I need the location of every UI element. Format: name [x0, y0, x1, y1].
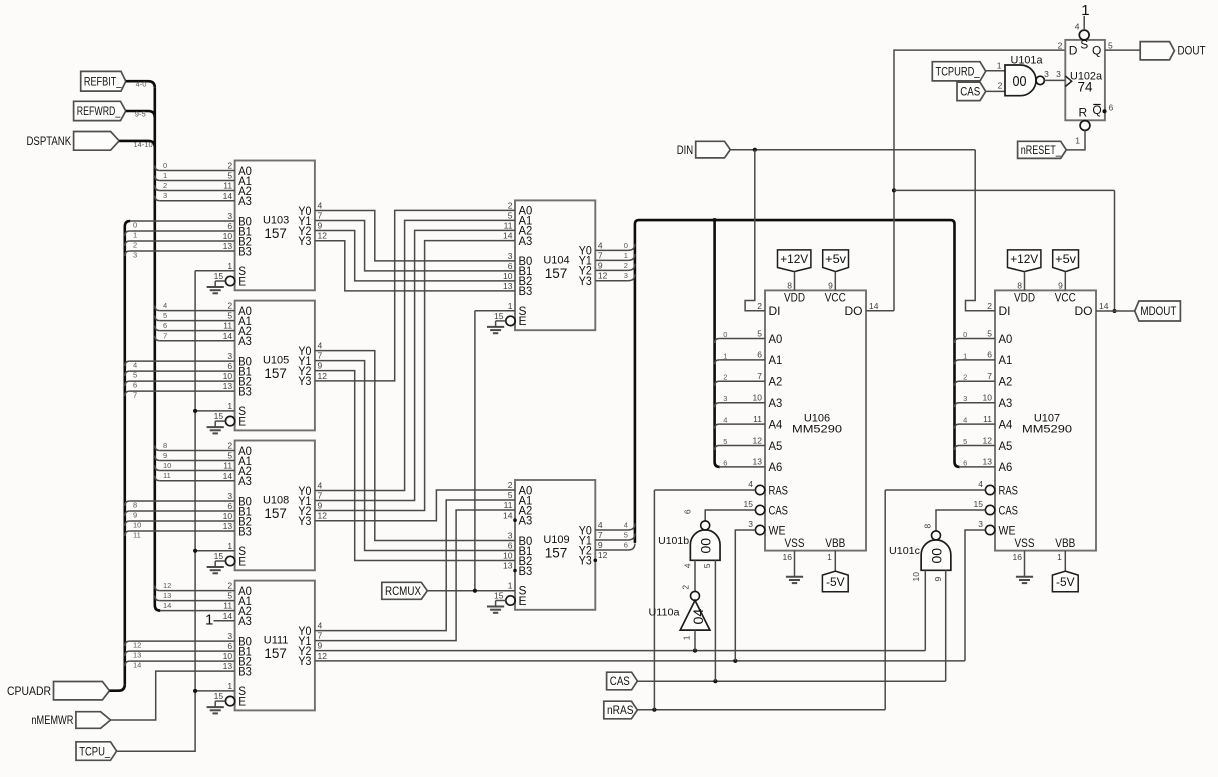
svg-text:11: 11 — [504, 500, 513, 510]
svg-text:4: 4 — [598, 240, 603, 250]
svg-text:9: 9 — [933, 577, 943, 582]
svg-text:1: 1 — [1057, 552, 1062, 562]
svg-text:9: 9 — [318, 641, 323, 651]
svg-text:157: 157 — [545, 266, 568, 281]
svg-text:B3: B3 — [238, 524, 252, 538]
svg-text:Y3: Y3 — [298, 654, 311, 668]
svg-text:11: 11 — [504, 221, 513, 231]
svg-text:REFBIT_: REFBIT_ — [84, 74, 122, 88]
svg-text:CAS: CAS — [960, 85, 980, 99]
svg-text:157: 157 — [264, 506, 287, 521]
svg-text:13: 13 — [223, 241, 233, 251]
svg-text:157: 157 — [264, 226, 287, 241]
svg-text:1: 1 — [227, 261, 232, 271]
svg-text:6: 6 — [227, 641, 232, 651]
svg-text:8: 8 — [163, 441, 167, 450]
svg-text:Q: Q — [1092, 43, 1101, 57]
svg-text:DI: DI — [769, 304, 781, 318]
svg-text:11: 11 — [223, 321, 232, 331]
svg-text:1: 1 — [508, 580, 513, 590]
svg-text:1: 1 — [205, 612, 213, 629]
svg-text:2: 2 — [227, 581, 232, 591]
svg-text:5: 5 — [227, 451, 232, 461]
svg-text:14: 14 — [1099, 301, 1109, 311]
svg-text:5: 5 — [624, 531, 628, 540]
svg-text:10: 10 — [911, 572, 921, 582]
svg-text:14: 14 — [223, 191, 233, 201]
svg-text:3: 3 — [508, 531, 513, 541]
svg-text:CPUADR: CPUADR — [7, 684, 51, 698]
svg-text:12: 12 — [983, 435, 993, 445]
svg-text:WE: WE — [769, 523, 786, 537]
svg-text:nMEMWR: nMEMWR — [31, 713, 73, 727]
svg-text:+12V: +12V — [1010, 252, 1038, 266]
svg-text:+5v: +5v — [825, 252, 846, 266]
svg-text:A3: A3 — [238, 334, 252, 348]
svg-text:6: 6 — [133, 381, 137, 390]
svg-text:U110a: U110a — [649, 607, 680, 618]
svg-text:2: 2 — [1058, 41, 1063, 51]
svg-text:9-5: 9-5 — [135, 110, 146, 119]
svg-text:9: 9 — [598, 540, 603, 550]
svg-text:4: 4 — [598, 520, 603, 530]
svg-text:11: 11 — [223, 181, 232, 191]
svg-text:B3: B3 — [238, 664, 252, 678]
svg-text:7: 7 — [133, 391, 137, 400]
svg-text:15: 15 — [214, 271, 224, 281]
svg-text:15: 15 — [214, 691, 224, 701]
svg-text:A3: A3 — [238, 474, 252, 488]
svg-text:4: 4 — [748, 479, 753, 489]
svg-text:A3: A3 — [519, 514, 533, 528]
svg-text:4: 4 — [318, 200, 323, 210]
svg-text:9: 9 — [318, 500, 323, 510]
svg-text:WE: WE — [999, 523, 1016, 537]
svg-text:8: 8 — [1017, 281, 1022, 291]
svg-text:VDD: VDD — [784, 291, 805, 305]
svg-text:6: 6 — [227, 501, 232, 511]
svg-text:6: 6 — [757, 350, 762, 360]
svg-text:nRESET_: nRESET_ — [1021, 143, 1061, 157]
svg-text:14: 14 — [869, 301, 879, 311]
svg-text:B3: B3 — [519, 564, 533, 578]
svg-text:B3: B3 — [238, 384, 252, 398]
svg-text:10: 10 — [133, 521, 141, 530]
svg-text:00: 00 — [928, 548, 944, 564]
svg-text:14: 14 — [163, 601, 171, 610]
svg-text:2: 2 — [998, 80, 1003, 90]
svg-text:10: 10 — [223, 511, 233, 521]
svg-text:A5: A5 — [999, 439, 1013, 453]
svg-text:A0: A0 — [999, 332, 1013, 346]
svg-text:VBB: VBB — [825, 536, 845, 550]
svg-text:MM5290: MM5290 — [1022, 424, 1072, 436]
svg-text:nRAS: nRAS — [607, 703, 634, 717]
svg-text:5: 5 — [133, 371, 137, 380]
svg-text:U105: U105 — [263, 355, 289, 367]
svg-text:6: 6 — [508, 541, 513, 551]
svg-text:10: 10 — [983, 393, 993, 403]
svg-text:9: 9 — [318, 361, 323, 371]
svg-text:7: 7 — [987, 371, 992, 381]
svg-text:7: 7 — [318, 490, 323, 500]
svg-text:7: 7 — [318, 631, 323, 641]
svg-text:E: E — [238, 414, 246, 428]
svg-text:TCPURD_: TCPURD_ — [936, 65, 980, 79]
svg-text:9: 9 — [163, 451, 167, 460]
svg-text:DO: DO — [845, 304, 863, 318]
svg-text:9: 9 — [133, 511, 137, 520]
svg-text:10: 10 — [163, 461, 171, 470]
svg-text:A5: A5 — [769, 439, 783, 453]
svg-text:0: 0 — [963, 330, 967, 339]
svg-text:3: 3 — [723, 394, 727, 403]
svg-text:12: 12 — [318, 231, 328, 241]
svg-text:U109: U109 — [543, 534, 569, 546]
svg-text:3: 3 — [227, 491, 232, 501]
svg-text:1: 1 — [133, 231, 137, 240]
svg-text:1: 1 — [681, 635, 691, 640]
svg-text:A2: A2 — [999, 375, 1013, 389]
svg-text:U104: U104 — [543, 254, 569, 266]
svg-text:3: 3 — [1056, 69, 1061, 79]
svg-text:11: 11 — [133, 531, 141, 540]
svg-text:1: 1 — [624, 251, 628, 260]
svg-text:E: E — [238, 554, 246, 568]
svg-text:9: 9 — [828, 281, 833, 291]
svg-text:U106: U106 — [804, 412, 830, 424]
svg-text:14: 14 — [223, 611, 233, 621]
svg-text:B3: B3 — [519, 284, 533, 298]
svg-text:14: 14 — [503, 231, 513, 241]
svg-text:14: 14 — [223, 331, 233, 341]
svg-text:00: 00 — [1013, 73, 1027, 90]
svg-text:A6: A6 — [999, 460, 1013, 474]
svg-text:13: 13 — [223, 521, 233, 531]
svg-text:14-10: 14-10 — [134, 140, 153, 149]
svg-text:6: 6 — [683, 509, 693, 514]
svg-text:1: 1 — [1081, 2, 1089, 19]
svg-text:-5V: -5V — [826, 575, 845, 589]
svg-text:13: 13 — [983, 457, 993, 467]
svg-text:4: 4 — [163, 301, 167, 310]
svg-text:2: 2 — [227, 301, 232, 311]
svg-text:A3: A3 — [519, 234, 533, 248]
svg-text:DIN: DIN — [677, 143, 694, 157]
svg-text:13: 13 — [223, 661, 233, 671]
svg-text:7: 7 — [598, 250, 603, 260]
svg-text:A3: A3 — [238, 194, 252, 208]
svg-text:E: E — [519, 594, 527, 608]
svg-text:4: 4 — [318, 341, 323, 351]
svg-text:U111: U111 — [264, 635, 289, 647]
svg-text:11: 11 — [223, 601, 232, 611]
svg-text:3: 3 — [963, 394, 967, 403]
svg-text:10: 10 — [503, 551, 513, 561]
svg-text:3: 3 — [133, 251, 137, 260]
svg-text:REFWRD_: REFWRD_ — [77, 104, 121, 118]
svg-text:12: 12 — [318, 371, 328, 381]
svg-text:6: 6 — [163, 321, 167, 330]
svg-text:A4: A4 — [999, 417, 1013, 431]
svg-text:6: 6 — [987, 350, 992, 360]
svg-text:2: 2 — [163, 181, 167, 190]
svg-text:DOUT: DOUT — [1178, 44, 1207, 58]
svg-text:5: 5 — [508, 490, 513, 500]
svg-text:A1: A1 — [769, 353, 783, 367]
svg-text:3: 3 — [978, 519, 983, 529]
svg-text:13: 13 — [133, 651, 141, 660]
svg-text:14: 14 — [133, 661, 141, 670]
svg-text:13: 13 — [503, 281, 513, 291]
svg-text:Y3: Y3 — [579, 554, 592, 568]
svg-text:11: 11 — [223, 461, 232, 471]
svg-text:2: 2 — [508, 201, 513, 211]
svg-text:1: 1 — [827, 552, 832, 562]
svg-text:Y3: Y3 — [298, 514, 311, 528]
svg-text:6: 6 — [624, 541, 628, 550]
svg-text:2: 2 — [508, 480, 513, 490]
svg-text:4: 4 — [133, 361, 137, 370]
svg-text:10: 10 — [223, 371, 233, 381]
svg-text:2: 2 — [987, 301, 992, 311]
svg-text:1: 1 — [227, 401, 232, 411]
svg-text:A6: A6 — [769, 460, 783, 474]
svg-text:Q: Q — [1092, 103, 1101, 117]
svg-text:4: 4 — [318, 480, 323, 490]
svg-text:14: 14 — [503, 510, 513, 520]
svg-text:3: 3 — [624, 271, 628, 280]
svg-text:MM5290: MM5290 — [792, 424, 842, 436]
svg-text:0: 0 — [723, 330, 727, 339]
svg-text:4: 4 — [318, 621, 323, 631]
svg-text:0: 0 — [624, 241, 628, 250]
svg-text:6: 6 — [227, 361, 232, 371]
svg-text:-5V: -5V — [1056, 575, 1075, 589]
svg-text:12: 12 — [163, 581, 171, 590]
svg-text:15: 15 — [494, 591, 504, 601]
svg-text:11: 11 — [753, 414, 762, 424]
svg-text:12: 12 — [753, 435, 763, 445]
svg-text:3: 3 — [227, 631, 232, 641]
svg-text:6: 6 — [508, 261, 513, 271]
svg-text:RCMUX: RCMUX — [385, 584, 421, 598]
svg-text:6: 6 — [723, 458, 727, 467]
svg-text:MDOUT: MDOUT — [1140, 304, 1177, 318]
svg-text:2: 2 — [963, 373, 967, 382]
svg-text:9: 9 — [318, 220, 323, 230]
svg-text:2: 2 — [133, 241, 137, 250]
svg-text:4-0: 4-0 — [136, 79, 147, 88]
svg-text:16: 16 — [783, 552, 793, 562]
svg-text:3: 3 — [227, 351, 232, 361]
svg-text:5: 5 — [163, 311, 167, 320]
svg-text:5: 5 — [723, 437, 727, 446]
svg-text:157: 157 — [264, 366, 287, 381]
svg-text:2: 2 — [624, 261, 628, 270]
svg-text:9: 9 — [598, 260, 603, 270]
svg-text:VBB: VBB — [1055, 536, 1075, 550]
svg-text:13: 13 — [753, 457, 763, 467]
svg-text:1: 1 — [163, 171, 167, 180]
svg-text:D: D — [1069, 43, 1078, 57]
svg-text:A1: A1 — [999, 353, 1013, 367]
svg-text:B3: B3 — [238, 244, 252, 258]
svg-text:7: 7 — [598, 530, 603, 540]
svg-text:5: 5 — [508, 211, 513, 221]
svg-text:157: 157 — [264, 646, 287, 661]
svg-text:15: 15 — [744, 499, 754, 509]
svg-text:A3: A3 — [769, 396, 783, 410]
svg-text:12: 12 — [598, 271, 608, 281]
svg-text:5: 5 — [227, 311, 232, 321]
svg-text:7: 7 — [318, 351, 323, 361]
svg-text:4: 4 — [1075, 22, 1080, 32]
svg-text:8: 8 — [787, 281, 792, 291]
svg-text:11: 11 — [163, 471, 171, 480]
svg-text:4: 4 — [683, 563, 693, 568]
svg-text:8: 8 — [133, 501, 137, 510]
svg-text:R: R — [1079, 105, 1088, 119]
svg-text:U101c: U101c — [889, 546, 920, 557]
svg-text:4: 4 — [963, 416, 967, 425]
svg-text:Y3: Y3 — [579, 274, 592, 288]
svg-text:E: E — [519, 314, 527, 328]
svg-text:2: 2 — [680, 585, 690, 590]
svg-text:4: 4 — [723, 416, 727, 425]
svg-text:2: 2 — [723, 373, 727, 382]
svg-text:7: 7 — [318, 210, 323, 220]
svg-text:VSS: VSS — [1015, 536, 1035, 550]
svg-text:12: 12 — [598, 550, 608, 560]
svg-text:6: 6 — [1109, 102, 1114, 112]
svg-text:16: 16 — [1013, 552, 1023, 562]
svg-text:3: 3 — [1044, 69, 1049, 79]
svg-text:0: 0 — [163, 161, 167, 170]
svg-text:+5v: +5v — [1055, 252, 1076, 266]
svg-text:6: 6 — [963, 458, 967, 467]
svg-text:3: 3 — [227, 211, 232, 221]
svg-text:2: 2 — [757, 301, 762, 311]
svg-text:10: 10 — [503, 271, 513, 281]
svg-text:10: 10 — [223, 651, 233, 661]
svg-text:1: 1 — [963, 351, 967, 360]
svg-text:00: 00 — [698, 538, 714, 554]
svg-text:3: 3 — [508, 251, 513, 261]
svg-text:A3: A3 — [999, 396, 1013, 410]
svg-text:DSPTANK: DSPTANK — [27, 134, 72, 148]
svg-text:11: 11 — [983, 414, 992, 424]
svg-text:Y3: Y3 — [298, 374, 311, 388]
svg-text:7: 7 — [757, 371, 762, 381]
svg-text:VSS: VSS — [785, 536, 805, 550]
svg-text:A3: A3 — [238, 614, 252, 628]
svg-text:U101b: U101b — [658, 536, 689, 547]
svg-text:5: 5 — [227, 171, 232, 181]
svg-text:E: E — [238, 274, 246, 288]
svg-text:+12V: +12V — [780, 252, 808, 266]
svg-text:5: 5 — [987, 328, 992, 338]
svg-text:15: 15 — [214, 411, 224, 421]
svg-text:15: 15 — [494, 311, 504, 321]
svg-text:3: 3 — [163, 191, 167, 200]
svg-text:12: 12 — [318, 651, 328, 661]
svg-text:5: 5 — [702, 563, 712, 568]
svg-text:7: 7 — [163, 331, 167, 340]
svg-text:CAS: CAS — [999, 503, 1019, 517]
svg-text:15: 15 — [214, 551, 224, 561]
svg-text:6: 6 — [227, 221, 232, 231]
svg-text:5: 5 — [757, 328, 762, 338]
svg-text:VDD: VDD — [1014, 291, 1035, 305]
svg-text:A0: A0 — [769, 332, 783, 346]
svg-text:13: 13 — [223, 381, 233, 391]
svg-text:13: 13 — [503, 561, 513, 571]
svg-text:1: 1 — [227, 681, 232, 691]
svg-text:8: 8 — [922, 524, 932, 529]
svg-text:TCPU_: TCPU_ — [79, 744, 110, 758]
svg-text:Y3: Y3 — [298, 234, 311, 248]
svg-text:1: 1 — [1075, 135, 1080, 145]
svg-text:3: 3 — [748, 519, 753, 529]
svg-text:E: E — [238, 694, 246, 708]
svg-text:04: 04 — [690, 608, 706, 624]
svg-text:0: 0 — [133, 221, 137, 230]
svg-text:DO: DO — [1075, 304, 1093, 318]
svg-text:1: 1 — [997, 61, 1002, 71]
svg-text:DI: DI — [999, 304, 1011, 318]
svg-text:1: 1 — [723, 351, 727, 360]
svg-text:14: 14 — [223, 471, 233, 481]
svg-text:157: 157 — [545, 546, 568, 561]
svg-text:RAS: RAS — [769, 483, 789, 497]
svg-text:U101a: U101a — [1011, 55, 1044, 67]
svg-text:15: 15 — [974, 499, 984, 509]
svg-text:9: 9 — [1058, 281, 1063, 291]
svg-text:4: 4 — [624, 521, 628, 530]
svg-text:2: 2 — [227, 161, 232, 171]
svg-text:VCC: VCC — [1055, 291, 1076, 305]
svg-text:VCC: VCC — [825, 291, 846, 305]
svg-text:A4: A4 — [769, 417, 783, 431]
svg-text:13: 13 — [163, 591, 171, 600]
svg-text:5: 5 — [963, 437, 967, 446]
svg-text:10: 10 — [753, 393, 763, 403]
svg-text:12: 12 — [133, 641, 141, 650]
svg-text:5: 5 — [227, 591, 232, 601]
svg-text:10: 10 — [223, 231, 233, 241]
svg-text:U103: U103 — [263, 215, 289, 227]
svg-text:U108: U108 — [263, 495, 289, 507]
svg-text:CAS: CAS — [769, 503, 789, 517]
svg-text:2: 2 — [227, 441, 232, 451]
svg-text:12: 12 — [318, 511, 328, 521]
svg-text:5: 5 — [1108, 41, 1113, 51]
svg-text:CAS: CAS — [610, 674, 630, 688]
svg-text:1: 1 — [227, 541, 232, 551]
svg-text:U107: U107 — [1034, 412, 1060, 424]
svg-text:A2: A2 — [769, 375, 783, 389]
svg-text:4: 4 — [978, 479, 983, 489]
svg-text:RAS: RAS — [999, 483, 1019, 497]
svg-text:74: 74 — [1077, 79, 1093, 94]
svg-text:1: 1 — [508, 301, 513, 311]
